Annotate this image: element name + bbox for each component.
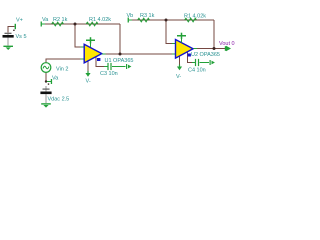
svg-text:U2 OPA365: U2 OPA365	[191, 52, 220, 58]
svg-text:Va: Va	[42, 17, 49, 23]
svg-text:V-: V-	[86, 79, 91, 85]
svg-text:U1 OPA365: U1 OPA365	[105, 58, 134, 64]
svg-text:C3 10n: C3 10n	[100, 71, 118, 77]
svg-text:R2 1k: R2 1k	[53, 17, 68, 23]
svg-text:Vb: Vb	[127, 13, 134, 19]
svg-text:Vin 2: Vin 2	[56, 67, 68, 73]
svg-text:R3 1k: R3 1k	[140, 13, 155, 19]
svg-text:V+: V+	[16, 18, 23, 24]
svg-text:Vdac 2.5: Vdac 2.5	[48, 97, 70, 103]
svg-text:R1 4.02k: R1 4.02k	[89, 17, 111, 23]
svg-text:Vs 5: Vs 5	[16, 34, 27, 40]
svg-text:R1 4.02k: R1 4.02k	[184, 14, 206, 20]
svg-text:C4 10n: C4 10n	[188, 68, 206, 74]
svg-text:V-: V-	[176, 74, 181, 80]
svg-text:Va: Va	[52, 76, 59, 82]
svg-text:Vout 0: Vout 0	[219, 41, 235, 47]
